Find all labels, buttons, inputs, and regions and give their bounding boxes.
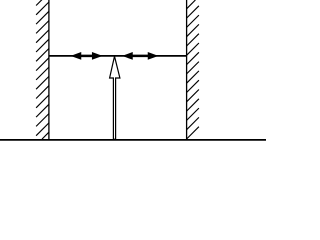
left double-headed arrow <box>72 53 102 59</box>
horizontal line between walls <box>49 55 187 57</box>
ground line (bottom) <box>0 139 266 141</box>
right double-headed arrow <box>123 53 157 59</box>
left wall line <box>48 0 50 140</box>
left wall hatching <box>36 0 49 139</box>
right wall hatching <box>187 0 199 139</box>
center up arrow (outline) <box>110 56 120 139</box>
right wall line <box>186 0 188 140</box>
